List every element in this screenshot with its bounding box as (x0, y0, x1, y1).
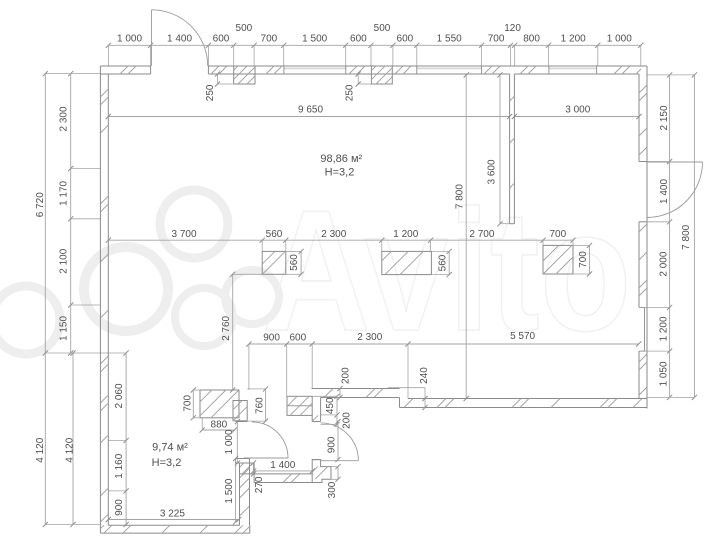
dim 1000 corridor (236, 422, 238, 463)
dim 1500 (235, 459, 237, 522)
svg-text:2 300: 2 300 (357, 332, 382, 343)
balcony door D2 leaf (647, 161, 703, 163)
top wall door jambs (150, 66, 152, 74)
dim 9650 (108, 116, 509, 118)
svg-text:2 150: 2 150 (659, 105, 670, 130)
svg-text:1 400: 1 400 (659, 179, 670, 204)
dim 3600 (499, 75, 501, 224)
left inner chain line (70, 74, 72, 353)
top dimension chain line (108, 44, 640, 46)
svg-text:1 160: 1 160 (114, 453, 125, 478)
svg-text:2 060: 2 060 (114, 383, 125, 408)
pier P2 in top wall (371, 66, 392, 84)
top chain ticks (106, 43, 111, 48)
svg-text:270: 270 (254, 476, 265, 493)
door D4 leaf (321, 460, 359, 462)
svg-text:700: 700 (549, 229, 566, 240)
left lower chains 4120 x2 (44, 353, 46, 525)
svg-text:200: 200 (342, 412, 353, 429)
svg-text:560: 560 (289, 254, 300, 271)
wall below hall pier (door D4 wall) (311, 415, 313, 421)
svg-text:1 000: 1 000 (117, 34, 142, 45)
svg-text:2 000: 2 000 (658, 251, 669, 276)
dim 700 pier (192, 390, 194, 418)
svg-text:3 600: 3 600 (487, 159, 498, 184)
small room left entry jamb block (240, 463, 255, 474)
right wall door jambs (639, 161, 647, 163)
svg-text:120: 120 (504, 23, 521, 34)
left outer chain 6720 (44, 74, 46, 353)
left chain extension lines (45, 73, 100, 75)
window 1 glazing (284, 66, 346, 68)
svg-text:1 200: 1 200 (393, 229, 418, 240)
hall pier (287, 396, 312, 415)
pier P1 250 dim (217, 74, 219, 84)
svg-text:2 100: 2 100 (59, 248, 70, 273)
column K2 560 dim (448, 251, 450, 274)
small room door D3 top cap (236, 421, 248, 423)
svg-text:1 000: 1 000 (607, 34, 632, 45)
svg-text:250: 250 (344, 84, 355, 101)
column K1 560 dim (300, 251, 302, 274)
middle dim row (108, 239, 573, 241)
svg-text:700: 700 (578, 251, 589, 268)
right wall (646, 66, 648, 409)
dim 900 door D4 (337, 422, 339, 460)
svg-text:250: 250 (205, 84, 216, 101)
dim 200 stub (336, 415, 338, 425)
dim 240 step (388, 387, 425, 389)
svg-text:1 200: 1 200 (658, 316, 669, 341)
svg-text:9 650: 9 650 (298, 105, 323, 116)
svg-text:1 550: 1 550 (437, 34, 462, 45)
svg-text:1 150: 1 150 (59, 316, 70, 341)
svg-text:450: 450 (325, 397, 336, 414)
bottom wall lower band (408, 398, 647, 400)
svg-text:700: 700 (488, 34, 505, 45)
svg-text:880: 880 (211, 419, 228, 430)
dim 300 (337, 467, 339, 480)
dim 450 (336, 396, 338, 415)
svg-text:7 800: 7 800 (455, 184, 466, 209)
dim 760 pier (265, 389, 267, 421)
svg-text:4 120: 4 120 (65, 437, 76, 462)
top door D1 leaf (151, 10, 153, 66)
svg-text:240: 240 (419, 367, 430, 384)
dim row 900 600 2300 5570 (249, 343, 639, 345)
column K3 (543, 245, 573, 274)
pier P1 in top wall (234, 66, 255, 84)
svg-text:900: 900 (263, 333, 280, 344)
svg-text:700: 700 (261, 34, 278, 45)
svg-text:900: 900 (327, 436, 338, 453)
svg-text:3 000: 3 000 (565, 105, 590, 116)
door D4 gap jamb below (312, 459, 320, 461)
left wall (99, 66, 101, 533)
right wall niche window (644, 307, 646, 351)
small room door D3 swing arc (252, 422, 288, 458)
dim 880 pier (202, 429, 234, 431)
top wall hatching (120, 66, 128, 74)
column K2 (382, 251, 432, 274)
hall bottom wall band (254, 473, 312, 475)
svg-text:1 500: 1 500 (224, 478, 235, 503)
entry dim 1400 (254, 470, 313, 472)
svg-text:Н=3,2: Н=3,2 (152, 457, 182, 469)
door D4 swing arc (321, 423, 359, 461)
right chain extension lines (647, 74, 694, 76)
partition wall 120 (509, 74, 511, 224)
small room pier SW big (200, 390, 239, 418)
row 344 extension lines (248, 344, 250, 390)
svg-text:7 800: 7 800 (681, 224, 692, 249)
svg-text:3 700: 3 700 (171, 229, 196, 240)
svg-text:200: 200 (341, 367, 352, 384)
svg-text:2 300: 2 300 (321, 229, 346, 240)
top wall outer edge (100, 65, 150, 67)
svg-text:4 120: 4 120 (35, 437, 46, 462)
window 3 glazing (549, 66, 597, 68)
svg-text:9,74 м²: 9,74 м² (152, 442, 188, 454)
svg-text:700: 700 (182, 395, 193, 412)
svg-text:600: 600 (350, 34, 367, 45)
right outer chain 7800 (693, 75, 695, 398)
column K3 700 dim (589, 245, 591, 274)
balcony door D2 swing arc (647, 162, 703, 218)
svg-text:2 300: 2 300 (59, 106, 70, 131)
small room right wall (239, 463, 241, 525)
small room inner chain (125, 353, 127, 525)
svg-text:600: 600 (397, 34, 414, 45)
svg-text:98,86 м²: 98,86 м² (320, 153, 362, 165)
svg-text:1 170: 1 170 (59, 180, 70, 205)
svg-text:1 500: 1 500 (302, 34, 327, 45)
left wall hatching (100, 89, 108, 97)
svg-text:Н=3,2: Н=3,2 (325, 166, 355, 178)
hall SE jamb (312, 460, 331, 483)
small room bottom wall (100, 532, 249, 534)
right wall hatching (639, 85, 647, 93)
svg-text:900: 900 (114, 499, 125, 516)
dim 3225 (108, 519, 239, 521)
svg-text:1 200: 1 200 (561, 34, 586, 45)
dim 2760 (232, 274, 234, 390)
small room pier attachment (233, 401, 247, 421)
dim 3000 (514, 116, 639, 118)
top chain extension lines (107, 45, 109, 66)
svg-text:560: 560 (438, 254, 449, 271)
svg-text:3 225: 3 225 (160, 508, 185, 519)
svg-text:800: 800 (523, 34, 540, 45)
dim 200 wall thickness (339, 389, 341, 398)
svg-text:300: 300 (327, 481, 338, 498)
svg-text:500: 500 (374, 23, 391, 34)
window 2 glazing (417, 66, 482, 68)
svg-text:1 400: 1 400 (167, 34, 192, 45)
small room door D3 jamb cap (236, 459, 250, 464)
svg-text:1 400: 1 400 (270, 460, 295, 471)
top wall inner edge (100, 73, 150, 75)
dim 270 (253, 463, 255, 474)
right inner chain (669, 75, 671, 398)
pier P2 250 dim (357, 74, 359, 84)
svg-text:600: 600 (213, 34, 230, 45)
column K1 (262, 251, 286, 274)
svg-text:500: 500 (236, 23, 253, 34)
watermark avito logo circles (160, 190, 228, 258)
bottom wall upper band (312, 388, 400, 390)
top door D1 swing arc (152, 10, 208, 66)
dim 7800 interior (465, 75, 467, 399)
svg-text:5 570: 5 570 (510, 331, 535, 342)
svg-text:760: 760 (255, 397, 266, 414)
svg-text:2 760: 2 760 (221, 315, 232, 340)
svg-text:6 720: 6 720 (35, 192, 46, 217)
svg-text:600: 600 (289, 333, 306, 344)
small room door D3 leaf (244, 457, 288, 459)
svg-text:1 000: 1 000 (224, 429, 235, 454)
svg-text:1 050: 1 050 (658, 361, 669, 386)
watermark avito word (262, 175, 631, 367)
svg-text:2 700: 2 700 (469, 229, 494, 240)
svg-text:560: 560 (266, 229, 283, 240)
